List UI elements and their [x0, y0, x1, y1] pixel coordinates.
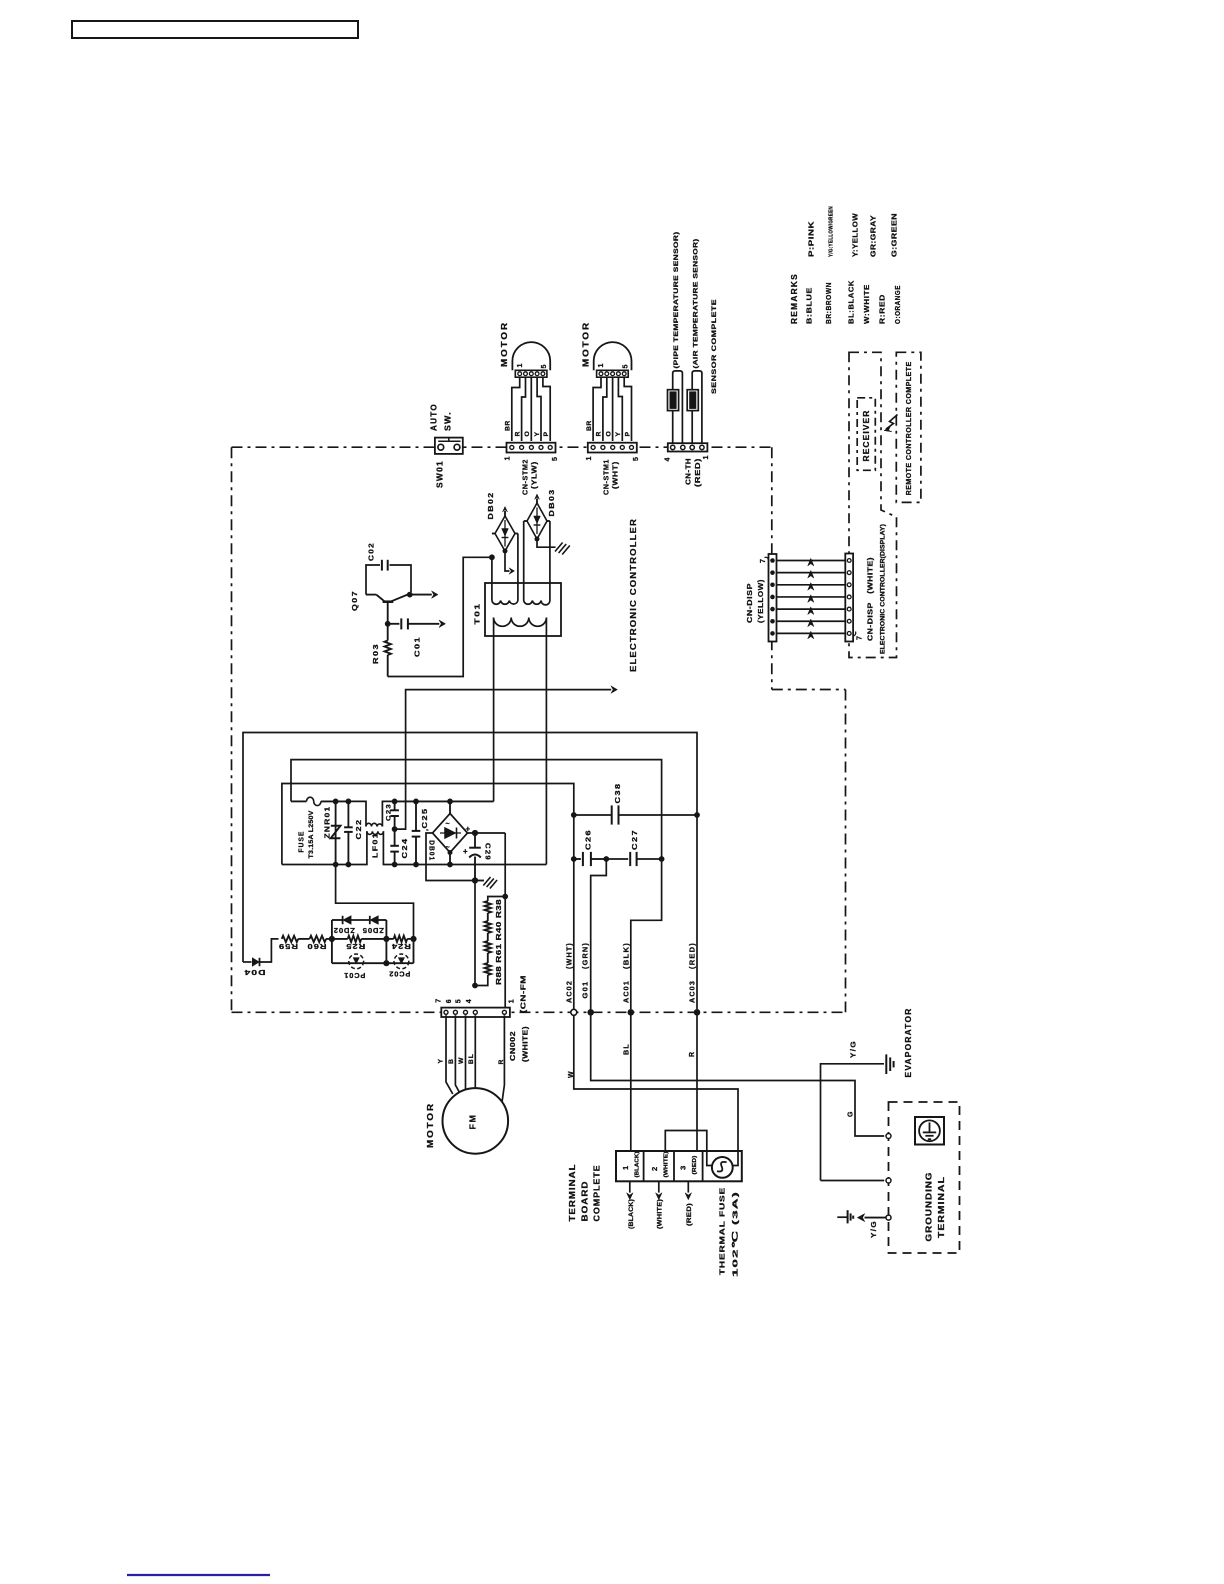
svg-text:G01: G01: [581, 981, 590, 999]
svg-text:3: 3: [679, 1165, 688, 1170]
photocoupler PC02: [386, 962, 413, 964]
ground circle 3: [886, 1215, 891, 1220]
svg-text:LF01: LF01: [371, 832, 380, 858]
bridge DB02: [495, 516, 515, 551]
node Q07 collector: [407, 592, 413, 598]
svg-text:C23: C23: [385, 803, 392, 821]
svg-text:W: W: [458, 1056, 465, 1064]
ground circle 2: [886, 1178, 891, 1183]
fan motor FM: [446, 1015, 453, 1094]
svg-text:B:BLUE: B:BLUE: [805, 287, 814, 324]
svg-text:FUSE: FUSE: [299, 831, 306, 853]
svg-text:R:RED: R:RED: [878, 294, 887, 324]
svg-text:(WHT): (WHT): [565, 942, 574, 969]
svg-text:1: 1: [621, 1165, 630, 1170]
terminal G01: [587, 1009, 594, 1016]
wire Y/G to grounding circle 2: [821, 1180, 885, 1182]
wire G01 to grounding terminal: [591, 1015, 885, 1136]
svg-text:C01: C01: [413, 636, 422, 657]
wire DC- from DB01: [426, 833, 475, 881]
capacitor C01: [388, 623, 400, 625]
svg-text:Y: Y: [615, 431, 622, 436]
capacitor C02: [366, 565, 380, 595]
motor (CN-STM2): [512, 342, 550, 370]
svg-text:DB02: DB02: [486, 492, 495, 520]
node network right: [410, 936, 416, 942]
svg-text:CN-STM1: CN-STM1: [602, 459, 611, 495]
svg-text:P:PINK: P:PINK: [807, 221, 816, 257]
svg-text:CN-STM2: CN-STM2: [520, 459, 529, 495]
svg-text:5: 5: [552, 456, 559, 461]
svg-text:(RED): (RED): [686, 1203, 693, 1226]
thermal fuse 102C 3A: [707, 1151, 712, 1166]
wire rail AC02 (W): [282, 784, 574, 1010]
resistor R59: [282, 936, 299, 942]
connector CN-STM1: [588, 443, 637, 453]
arrow to controller logic 1: [410, 594, 432, 596]
svg-text:(CN-FM: (CN-FM: [519, 975, 528, 1013]
capacitor C29 (electrolytic): [474, 833, 476, 848]
svg-text:R60: R60: [307, 942, 327, 951]
svg-text:REMARKS: REMARKS: [790, 273, 799, 324]
svg-text:+: +: [463, 847, 468, 856]
svg-text:T3.15A L250V: T3.15A L250V: [308, 810, 315, 859]
wire mains N left segment: [282, 864, 349, 866]
node network mid: [383, 936, 389, 942]
svg-text:CN-TH: CN-TH: [684, 458, 693, 485]
svg-text:4: 4: [665, 456, 672, 461]
svg-text:W:WHITE: W:WHITE: [862, 284, 871, 324]
wire R to terminal board: [696, 1015, 698, 1151]
svg-text:CN002: CN002: [508, 1031, 517, 1061]
svg-text:O:ORANGE: O:ORANGE: [893, 285, 902, 324]
transistor Q07: [366, 594, 376, 596]
connector CN-STM2: [507, 443, 556, 453]
wire W to thermal fuse: [574, 1015, 738, 1151]
svg-text:O: O: [606, 431, 613, 437]
wire link cell2-cell4: [665, 1131, 707, 1152]
svg-text:R88 R61 R40 R38: R88 R61 R40 R38: [496, 899, 503, 985]
svg-text:AC02: AC02: [565, 980, 574, 1003]
svg-text:(RED): (RED): [692, 1155, 698, 1174]
svg-text:GROUNDING: GROUNDING: [925, 1172, 934, 1242]
svg-text:ZD05: ZD05: [362, 926, 384, 933]
svg-text:1: 1: [586, 455, 593, 460]
resistor R25: [332, 938, 348, 940]
svg-text:(GRN): (GRN): [581, 942, 590, 969]
svg-text:REMOTE CONTROLLER COMPLETE: REMOTE CONTROLLER COMPLETE: [906, 361, 913, 495]
svg-text:5: 5: [633, 456, 640, 461]
svg-text:5: 5: [541, 363, 548, 368]
svg-text:4: 4: [466, 998, 473, 1003]
motor (CN-STM1): [594, 342, 632, 370]
svg-text:7: 7: [856, 635, 863, 640]
varistor ZNR01: [335, 801, 337, 864]
svg-text:102℃ (3A): 102℃ (3A): [730, 1191, 739, 1277]
svg-text:(WHITE): (WHITE): [521, 1026, 530, 1062]
terminal AC01: [628, 1009, 635, 1016]
svg-text:Y/G:YELLOW/GREEN: Y/G:YELLOW/GREEN: [829, 206, 835, 257]
capacitor C25: [415, 801, 417, 831]
external earth Y/G: [865, 1217, 887, 1219]
svg-text:R: R: [596, 431, 603, 436]
svg-text:R: R: [514, 431, 521, 436]
node chain to CN-FM pin4: [474, 984, 476, 986]
terminal AC02: [571, 1009, 577, 1015]
svg-text:CN-DISP: CN-DISP: [745, 583, 754, 623]
svg-text:Q07: Q07: [350, 590, 359, 611]
evaporator earth symbol: [885, 1054, 887, 1074]
svg-text:(AIR TEMPERATURE SENSOR): (AIR TEMPERATURE SENSOR): [693, 239, 700, 369]
connector CN-TH: [668, 443, 708, 451]
svg-text:D04: D04: [244, 968, 266, 977]
svg-text:AC03: AC03: [688, 980, 697, 1003]
svg-text:1: 1: [598, 362, 605, 367]
svg-text:DB01: DB01: [427, 840, 434, 861]
svg-text:2: 2: [650, 1166, 659, 1171]
grounding terminal (dashed box): [889, 1102, 960, 1253]
svg-text:(BLACK): (BLACK): [628, 1199, 635, 1229]
svg-text:(BLK): (BLK): [622, 942, 631, 969]
svg-text:ELECTRONIC CONTROLLER(DISPLAY): ELECTRONIC CONTROLLER(DISPLAY): [880, 524, 886, 654]
svg-text:R24: R24: [391, 942, 411, 951]
wire rail AC03 (R): [243, 733, 697, 1010]
svg-text:R03: R03: [371, 643, 380, 664]
connector CN-FM: [441, 1008, 510, 1017]
switch SW01 (AUTO SW.): [435, 438, 463, 454]
bridge rectifier DB01: [449, 801, 451, 813]
svg-text:BL: BL: [468, 1053, 475, 1064]
terminal AC03: [694, 1009, 701, 1016]
chassis ground DC-: [475, 880, 484, 882]
svg-text:BL:BLACK: BL:BLACK: [847, 280, 856, 324]
wire mid-tap to controller arrow: [395, 690, 612, 830]
capacitor C38: [574, 814, 612, 816]
svg-text:1: 1: [703, 454, 710, 459]
wire BL to terminal board: [630, 1015, 632, 1151]
svg-text:Y/G: Y/G: [871, 1220, 878, 1238]
wire Y/G evaporator earth: [821, 1064, 885, 1181]
wire G01 branch: [591, 859, 607, 1009]
node DB02 feed: [489, 554, 495, 560]
svg-text:R: R: [689, 1051, 696, 1057]
wire mains N row: [395, 864, 547, 866]
svg-text:R: R: [498, 1058, 505, 1064]
svg-text:SW.: SW.: [443, 411, 452, 431]
svg-text:(WHT): (WHT): [611, 461, 620, 489]
arrow remote-to-receiver: [886, 415, 898, 430]
svg-text:C29: C29: [484, 843, 493, 861]
svg-text:Y:YELLOW: Y:YELLOW: [851, 213, 860, 257]
svg-text:B: B: [448, 1058, 455, 1064]
node zener network left: [329, 936, 335, 942]
svg-text:AC01: AC01: [622, 980, 631, 1003]
resistor R60: [310, 936, 327, 942]
bridge DB03: [527, 503, 547, 539]
svg-text:O: O: [524, 431, 531, 437]
connector CN-DISP (WHITE): [845, 554, 853, 642]
air temperature sensor: [692, 371, 702, 443]
photocoupler PC01: [331, 939, 333, 963]
svg-text:(YELLOW): (YELLOW): [756, 579, 765, 623]
svg-text:BR:BROWN: BR:BROWN: [824, 282, 833, 324]
svg-text:(BLACK): (BLACK): [635, 1151, 641, 1177]
node base/C01: [385, 621, 391, 627]
zener ZD02: [331, 920, 333, 939]
svg-text:Y/G: Y/G: [851, 1040, 858, 1058]
remote controller complete (dash-dot box): [896, 352, 921, 502]
electronic controller boundary (dash-dot box): [232, 446, 772, 448]
diode D04: [243, 961, 252, 963]
wire ZNR to network: [336, 865, 414, 939]
receiver (dash-dot box): [857, 398, 875, 471]
svg-text:C02: C02: [367, 542, 376, 561]
svg-text:THERMAL FUSE: THERMAL FUSE: [717, 1187, 726, 1275]
capacitor C27: [606, 858, 628, 860]
svg-text:(PIPE TEMPERATURE SENSOR): (PIPE TEMPERATURE SENSOR): [673, 232, 680, 369]
svg-text:EVAPORATOR: EVAPORATOR: [904, 1008, 913, 1078]
svg-text:SW01: SW01: [435, 460, 444, 488]
svg-text:BL: BL: [623, 1043, 630, 1055]
svg-text:C26: C26: [584, 829, 593, 850]
svg-text:1: 1: [517, 362, 524, 367]
fuse T3.15A L250V: [291, 800, 307, 802]
svg-text:5: 5: [622, 363, 629, 368]
svg-text:GR:GRAY: GR:GRAY: [869, 215, 878, 257]
svg-text:1: 1: [505, 455, 512, 460]
wire DC+ row: [468, 832, 506, 834]
wire rail fuse feed: [291, 760, 662, 1009]
svg-text:5: 5: [456, 998, 463, 1003]
node PC row: [383, 960, 389, 966]
line filter LF01: [348, 801, 366, 826]
svg-text:ELECTRONIC CONTROLLER: ELECTRONIC CONTROLLER: [628, 518, 638, 672]
svg-text:Y: Y: [534, 431, 541, 436]
svg-text:FM: FM: [468, 1114, 478, 1130]
svg-text:R59: R59: [278, 942, 298, 951]
wire R03 to DB02 feed: [388, 557, 490, 676]
svg-text:COMPLETE: COMPLETE: [593, 1165, 602, 1222]
svg-text:TERMINAL: TERMINAL: [937, 1176, 946, 1238]
svg-text:SENSOR COMPLETE: SENSOR COMPLETE: [711, 299, 718, 394]
connector CN-DISP (YELLOW): [769, 554, 777, 642]
svg-text:P: P: [624, 431, 631, 436]
svg-text:PC01: PC01: [343, 971, 365, 978]
svg-text:Y: Y: [438, 1058, 445, 1064]
svg-text:(WHITE): (WHITE): [657, 1199, 664, 1229]
svg-text:C38: C38: [613, 783, 622, 804]
svg-text:G: G: [848, 1110, 855, 1117]
svg-text:ZNR01: ZNR01: [323, 806, 332, 839]
svg-text:(WHITE): (WHITE): [664, 1151, 670, 1177]
title box (empty): [72, 21, 358, 38]
svg-text:P: P: [543, 431, 550, 436]
svg-text:RECEIVER: RECEIVER: [862, 410, 871, 462]
capacitor C22: [347, 801, 349, 827]
svg-text:CN-DISP (WHITE): CN-DISP (WHITE): [866, 557, 875, 641]
svg-text:W: W: [568, 1070, 575, 1078]
svg-text:C24: C24: [400, 838, 409, 859]
capacitor C26: [574, 858, 581, 860]
svg-text:MOTOR: MOTOR: [581, 321, 590, 367]
svg-text:MOTOR: MOTOR: [426, 1102, 435, 1148]
svg-text:(RED): (RED): [693, 458, 702, 487]
svg-text:6: 6: [446, 998, 453, 1003]
svg-text:BR: BR: [586, 420, 593, 431]
display unit boundary (dash-dot): [849, 352, 897, 657]
resistor chain R38 R40 R61 R88: [488, 897, 505, 902]
svg-text:G:GREEN: G:GREEN: [890, 213, 899, 257]
svg-text:7: 7: [760, 558, 767, 563]
svg-text:~: ~: [446, 821, 450, 828]
wire mains L row: [395, 800, 494, 802]
svg-text:T01: T01: [472, 603, 481, 625]
chassis ground DB03: [555, 543, 563, 552]
ground circle 1: [886, 1134, 891, 1139]
svg-text:7: 7: [436, 998, 443, 1003]
svg-text:TERMINAL: TERMINAL: [568, 1164, 577, 1222]
svg-text:(RED): (RED): [688, 942, 697, 969]
arrows to field wiring: [629, 1181, 631, 1192]
svg-text:R25: R25: [345, 942, 365, 951]
svg-text:(YLW): (YLW): [529, 461, 538, 489]
svg-text:C22: C22: [354, 819, 363, 840]
svg-text:DB03: DB03: [547, 489, 556, 517]
zener ZD05: [369, 916, 371, 924]
svg-text:PC02: PC02: [388, 970, 410, 977]
resistor R24: [386, 938, 393, 940]
footer blue rule: [127, 1574, 270, 1576]
svg-text:MOTOR: MOTOR: [500, 321, 509, 367]
capacitor C23: [394, 801, 396, 810]
svg-text:C27: C27: [630, 829, 639, 850]
svg-text:ZD02: ZD02: [333, 926, 355, 933]
pipe temperature sensor: [673, 371, 683, 443]
transformer T01: [485, 583, 561, 636]
resistor R03: [387, 624, 389, 641]
terminal board complete: [616, 1151, 742, 1181]
capacitor C24: [394, 829, 396, 846]
svg-text:1: 1: [509, 998, 516, 1003]
display ribbon wires: [777, 560, 846, 562]
svg-text:AUTO: AUTO: [429, 403, 438, 431]
svg-text:BOARD: BOARD: [581, 1181, 590, 1222]
svg-text:BR: BR: [505, 420, 512, 431]
earth terminal symbol: [915, 1117, 944, 1145]
